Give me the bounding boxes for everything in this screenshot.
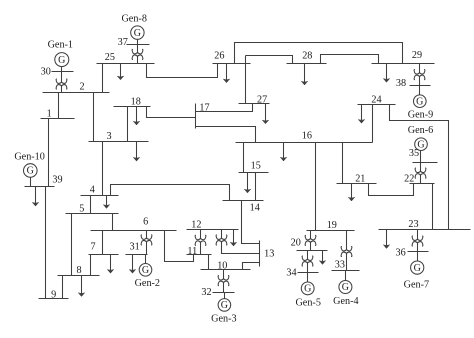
svg-text:36: 36 <box>396 247 406 258</box>
svg-text:19: 19 <box>327 220 337 231</box>
svg-text:G: G <box>304 284 311 295</box>
svg-text:10: 10 <box>217 260 227 271</box>
svg-text:Gen-5: Gen-5 <box>295 298 320 309</box>
svg-text:G: G <box>221 300 228 311</box>
svg-text:26: 26 <box>214 51 224 62</box>
svg-text:15: 15 <box>251 161 261 172</box>
svg-text:22: 22 <box>404 174 414 185</box>
svg-text:14: 14 <box>250 202 260 213</box>
svg-text:G: G <box>134 28 141 39</box>
svg-text:23: 23 <box>408 219 418 230</box>
svg-text:30: 30 <box>41 66 51 77</box>
svg-text:6: 6 <box>143 216 148 227</box>
svg-text:Gen-6: Gen-6 <box>408 125 433 136</box>
svg-text:2: 2 <box>79 81 84 92</box>
svg-text:24: 24 <box>371 95 381 106</box>
svg-text:33: 33 <box>335 260 345 271</box>
svg-text:17: 17 <box>199 103 209 114</box>
svg-text:16: 16 <box>302 130 312 141</box>
svg-text:G: G <box>342 282 349 293</box>
svg-text:21: 21 <box>355 174 365 185</box>
svg-text:G: G <box>27 166 34 177</box>
svg-text:11: 11 <box>187 246 197 257</box>
svg-text:27: 27 <box>257 95 267 106</box>
svg-text:34: 34 <box>286 267 296 278</box>
svg-text:4: 4 <box>90 185 95 196</box>
svg-text:35: 35 <box>409 148 419 159</box>
svg-text:Gen-1: Gen-1 <box>48 39 73 50</box>
svg-text:Gen-7: Gen-7 <box>404 280 429 291</box>
svg-text:Gen-9: Gen-9 <box>408 110 433 121</box>
svg-text:18: 18 <box>131 97 141 108</box>
svg-text:G: G <box>58 55 65 66</box>
svg-text:1: 1 <box>47 109 52 120</box>
svg-text:9: 9 <box>51 290 56 301</box>
svg-text:29: 29 <box>412 50 422 61</box>
svg-text:39: 39 <box>52 174 62 185</box>
svg-text:5: 5 <box>79 204 84 215</box>
svg-text:12: 12 <box>191 219 201 230</box>
svg-text:25: 25 <box>105 52 115 63</box>
svg-text:G: G <box>142 265 149 276</box>
svg-text:Gen-2: Gen-2 <box>135 278 160 289</box>
svg-text:31: 31 <box>130 242 140 253</box>
svg-text:38: 38 <box>396 78 406 89</box>
svg-text:Gen-10: Gen-10 <box>14 152 45 163</box>
svg-text:G: G <box>414 263 421 274</box>
svg-text:7: 7 <box>90 242 95 253</box>
svg-text:37: 37 <box>118 37 128 48</box>
svg-text:8: 8 <box>76 265 81 276</box>
svg-text:Gen-4: Gen-4 <box>333 296 358 307</box>
svg-text:13: 13 <box>264 248 274 259</box>
svg-text:20: 20 <box>291 237 301 248</box>
svg-text:Gen-3: Gen-3 <box>211 314 236 325</box>
svg-text:3: 3 <box>106 131 111 142</box>
svg-text:Gen-8: Gen-8 <box>121 14 146 25</box>
svg-text:G: G <box>416 96 423 107</box>
svg-text:28: 28 <box>302 50 312 61</box>
svg-text:32: 32 <box>201 287 211 298</box>
